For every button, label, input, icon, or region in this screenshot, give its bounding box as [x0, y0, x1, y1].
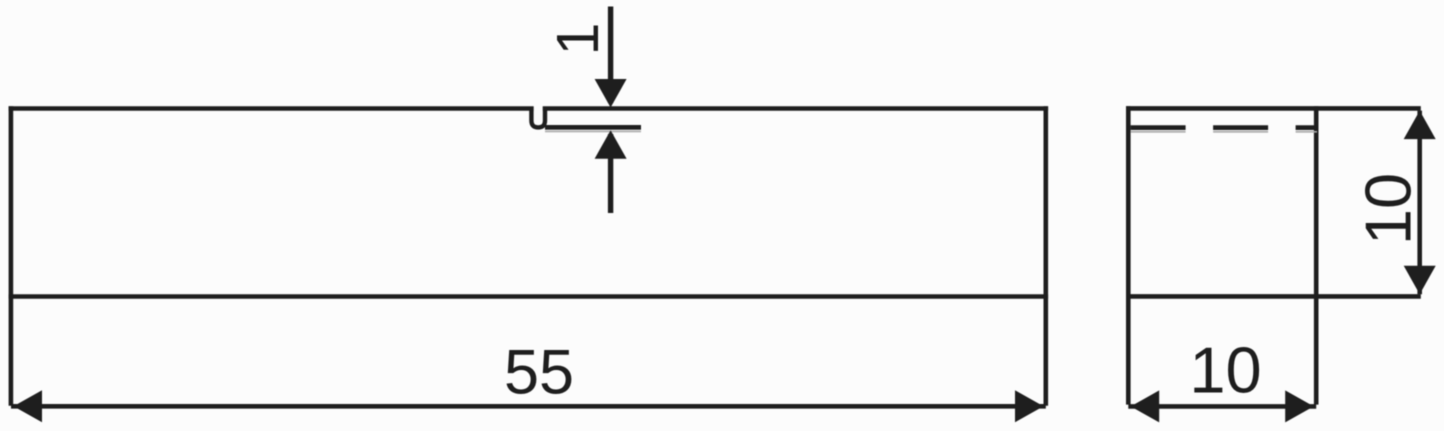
- width dimension line 10 (bottom of end view): [1128, 404, 1316, 409]
- notch depth dimension line lower segment: [608, 134, 613, 213]
- side view top edge right of notch: [543, 106, 1048, 111]
- notch U profile: [531, 107, 545, 128]
- end view bottom edge with extension line to height dimension: [1126, 294, 1421, 299]
- arrowhead right end of bottom 10 dimension: [1285, 390, 1314, 422]
- arrowhead left end of 55 dimension: [14, 390, 43, 422]
- hidden line for notch bottom (dashed): [1131, 125, 1317, 130]
- svg-text:55: 55: [504, 338, 574, 408]
- shadow under hidden dashed line: [1131, 131, 1317, 133]
- arrowhead bottom end of right 10 dimension: [1404, 266, 1436, 295]
- side view top edge left of notch: [9, 106, 534, 111]
- end view right edge with extension line to width dimension: [1314, 106, 1319, 404]
- height dimension line 10 (right of end view): [1417, 111, 1422, 295]
- shadow under notch bottom reference line: [545, 131, 641, 133]
- side view right edge with extension line to 55 dimension: [1044, 106, 1049, 406]
- arrowhead top end of right 10 dimension: [1404, 111, 1436, 140]
- svg-text:10: 10: [1351, 173, 1424, 245]
- arrowhead pointing down at top surface (notch depth): [595, 79, 627, 108]
- end view top edge with extension line to height dimension: [1126, 106, 1421, 111]
- svg-text:10: 10: [1189, 334, 1261, 407]
- svg-text:1: 1: [545, 23, 611, 56]
- end view left edge with extension line to width dimension: [1126, 106, 1131, 404]
- arrowhead pointing up at notch bottom line (notch depth): [595, 130, 627, 159]
- arrowhead right end of 55 dimension: [1015, 390, 1044, 422]
- side view left edge with extension line to 55 dimension: [9, 106, 14, 406]
- side view bottom edge: [9, 294, 1049, 299]
- notch depth dimension line upper segment: [608, 7, 613, 104]
- arrowhead left end of bottom 10 dimension: [1131, 390, 1160, 422]
- length dimension line 55: [11, 404, 1046, 409]
- notch bottom reference line: [545, 125, 641, 130]
